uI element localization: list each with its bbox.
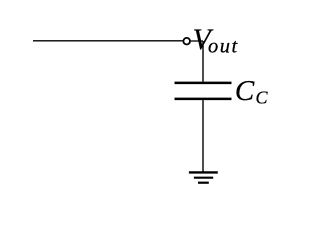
wire from terminal to junction xyxy=(191,40,203,42)
wire capacitor to ground xyxy=(202,100,204,171)
ground xyxy=(189,172,218,182)
svg-text:out: out xyxy=(208,36,239,58)
wire junction down to capacitor xyxy=(202,41,204,82)
node Vout terminal (open circle) xyxy=(183,38,190,45)
label Vout xyxy=(193,24,239,58)
svg-text:C: C xyxy=(256,88,269,108)
svg-text:C: C xyxy=(235,75,255,107)
capacitor C_C bottom plate xyxy=(175,98,232,101)
wire from left to output terminal xyxy=(33,40,183,42)
capacitor C_C top plate xyxy=(175,82,232,85)
label C_C xyxy=(235,75,269,108)
